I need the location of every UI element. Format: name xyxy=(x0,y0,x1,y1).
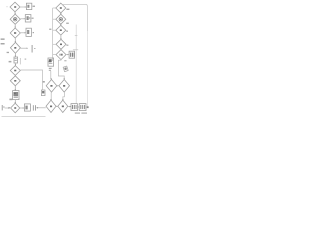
top loop line xyxy=(61,4,87,107)
tiny label under hatch box xyxy=(64,60,66,61)
drop line to box A xyxy=(75,25,77,104)
arrowhead into R1 xyxy=(25,6,26,7)
arrowhead into B xyxy=(78,106,79,107)
loop into box B stub xyxy=(86,106,87,108)
connector bar after D4 xyxy=(31,45,33,53)
doc box contents xyxy=(27,5,29,8)
diamond E5 xyxy=(56,50,66,60)
doc box DOC1 below E lane xyxy=(48,58,54,71)
wire DOC1 to F1 xyxy=(50,71,52,79)
diamond G1 xyxy=(46,100,56,112)
doc box R2 xyxy=(25,15,31,22)
arrowhead into R3 xyxy=(25,32,26,33)
wire D2-D3 xyxy=(14,24,16,28)
wire E2-E3 xyxy=(60,24,62,25)
label 6 left of F1 xyxy=(43,81,45,83)
arrowhead G2-A xyxy=(70,106,71,108)
vertical wire arrowheads xyxy=(14,13,65,103)
label above D7 xyxy=(9,99,12,101)
diamond D2 xyxy=(10,14,20,24)
tiny gray labels, left margin xyxy=(1,6,36,63)
wire bars-G1 xyxy=(36,107,46,109)
footer line xyxy=(2,116,46,118)
loop top xyxy=(61,4,87,31)
rail stub E2 xyxy=(53,18,56,20)
diamond F2 xyxy=(59,80,70,93)
diamond E1 xyxy=(56,3,66,13)
diamond D7 xyxy=(11,103,20,113)
wire E5 bottom to F2 xyxy=(58,60,64,80)
hatch box H1 xyxy=(69,51,75,58)
arrow D3-R3 xyxy=(20,32,25,34)
dash above hatch box xyxy=(73,49,78,51)
arrow A-B xyxy=(77,106,80,108)
arrow D4-bar xyxy=(21,47,27,49)
doc box R1 xyxy=(26,3,31,9)
right-side tiny labels of E lane xyxy=(48,9,69,63)
wire E1-E2 xyxy=(60,13,62,14)
rail xyxy=(52,8,54,61)
label under DOC1 xyxy=(49,68,52,69)
tiny label box on F2 wire xyxy=(63,66,68,72)
tiny box at end of D5 wire xyxy=(41,90,45,96)
diamond E4 xyxy=(56,39,66,49)
small vertical line right of B1 xyxy=(19,58,21,64)
glyphs in right-lane diamonds xyxy=(59,7,63,55)
arrow F1-F2 xyxy=(56,85,59,87)
box B xyxy=(79,104,86,111)
arrow D2-R2 xyxy=(20,18,24,20)
arrowhead into D7 xyxy=(9,107,11,109)
doc box R3 xyxy=(26,28,31,36)
arrowhead D7-RectL xyxy=(23,107,24,109)
diamond D4 xyxy=(10,42,20,53)
diamond F1 xyxy=(46,80,70,113)
arrowhead into hatch box xyxy=(68,54,69,55)
wire D3-D4 xyxy=(14,38,16,42)
diamond E2 xyxy=(56,14,66,24)
diamond E3 xyxy=(56,25,66,35)
box A xyxy=(71,104,77,111)
diamond G2 xyxy=(58,100,68,112)
arrow D1-R1 xyxy=(20,6,25,8)
image box IMG1 xyxy=(13,91,19,100)
rail stub E3 xyxy=(53,29,56,31)
arrowhead after D4 xyxy=(27,48,28,49)
wire F2-G2 xyxy=(63,92,65,100)
footer tiny text xyxy=(75,112,87,113)
wire D6-imgbox xyxy=(14,86,16,91)
arrowhead into G2 xyxy=(57,106,58,107)
wire F1-G1 xyxy=(50,92,52,100)
diamond D1 xyxy=(10,2,20,12)
faint speck left of D1 xyxy=(6,6,8,8)
arrow E5 to hatch box xyxy=(66,54,68,56)
arrowhead into G1 xyxy=(37,107,38,109)
mark right of box B xyxy=(87,106,89,108)
arrow G2-A xyxy=(68,106,71,108)
diamond D3 xyxy=(10,28,20,38)
process box B1 xyxy=(14,57,18,63)
loop right lower (fainter) xyxy=(86,31,88,107)
wire imgbox-D7 xyxy=(14,100,16,103)
arrow D7-RectL xyxy=(20,107,23,109)
diamond D5 xyxy=(10,66,20,76)
rail stub E5 xyxy=(53,54,56,56)
arrow G1-G2 xyxy=(55,105,58,107)
glyph F1 xyxy=(50,85,65,107)
wire start-D7 xyxy=(5,107,9,109)
arrowhead into R2 xyxy=(24,18,25,19)
left rail of right lane xyxy=(53,8,56,61)
doc box RL bottom xyxy=(24,104,30,111)
rail stub E1 xyxy=(53,7,56,9)
wire D5 right long xyxy=(20,70,42,90)
bottom-left start marks xyxy=(2,105,5,110)
wire E3-E4 xyxy=(60,35,62,39)
wire box-D5 xyxy=(15,63,17,65)
tick on drop line xyxy=(75,35,78,37)
connector bars after RL xyxy=(33,105,36,110)
label 10 in E5 xyxy=(59,54,62,56)
glyphs in left-lane shapes xyxy=(13,5,30,109)
img icon xyxy=(13,92,18,96)
rail stub E4 xyxy=(53,43,56,45)
arrowhead into F2 xyxy=(58,85,59,86)
diamond D6 xyxy=(10,76,20,86)
wire D4-box xyxy=(14,53,16,56)
wire D1-D2 xyxy=(14,12,16,14)
